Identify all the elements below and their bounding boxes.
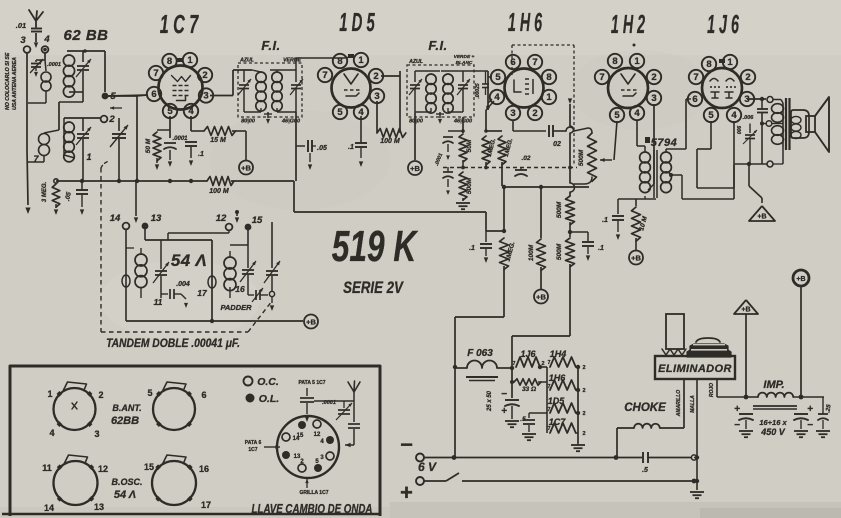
svg-text:4: 4 — [43, 34, 50, 45]
svg-text:F.I.: F.I. — [261, 38, 280, 53]
wire to +B triangle — [748, 164, 750, 186]
resistor 15M — [191, 130, 204, 132]
svg-text:.1: .1 — [348, 144, 354, 151]
svg-text:.01: .01 — [16, 21, 26, 30]
oscillator trimmer 2 — [247, 245, 249, 268]
label 1C7 — [160, 9, 199, 39]
svg-text:12: 12 — [98, 464, 108, 474]
grid bias chain x504 — [503, 187, 505, 231]
wire 1C7 pin5 down — [169, 116, 171, 138]
svg-text:500M: 500M — [466, 177, 473, 194]
svg-text:5: 5 — [495, 72, 501, 83]
svg-text:−: − — [501, 389, 507, 400]
wire 1J6 pin3 to output — [747, 98, 766, 100]
tube 1C7 — [159, 66, 203, 110]
svg-text:.1: .1 — [602, 217, 608, 224]
output transformer primary — [781, 100, 783, 104]
volume potentiometer 500M — [574, 128, 588, 131]
output terminal top — [767, 97, 773, 103]
capacitor .1 plate feed — [570, 231, 588, 233]
wire chain top from switch — [454, 457, 456, 459]
wire A minus down — [454, 367, 456, 458]
interstage transformer 5794 — [645, 137, 650, 143]
62BB secondary coil — [64, 117, 100, 119]
label 1J6 — [707, 11, 739, 40]
first IF transformer dashed box — [238, 63, 302, 117]
svg-text:17: 17 — [197, 288, 208, 298]
wire transformer bottom — [644, 196, 646, 199]
wire malla to ground — [696, 379, 698, 490]
first IF primary trimmer — [243, 70, 245, 82]
wire 1C7 pin3 to IF — [210, 95, 233, 97]
arrow pata6 — [264, 446, 280, 448]
svg-text:3: 3 — [374, 91, 379, 102]
tube 1H2 — [608, 68, 648, 108]
first IF secondary coil — [272, 72, 282, 82]
+B circle screen — [534, 290, 548, 304]
svg-text:2: 2 — [98, 390, 103, 400]
hop over x570 — [566, 127, 574, 131]
svg-text:+B: +B — [631, 253, 641, 262]
box ELIMINADOR — [655, 356, 735, 379]
svg-text:450 V: 450 V — [760, 427, 786, 437]
oscillator coil 2 — [224, 257, 236, 269]
label 1H2 — [611, 11, 645, 40]
first IF center ground — [267, 112, 269, 118]
speaker driver — [806, 116, 815, 132]
svg-text:2: 2 — [532, 108, 537, 119]
+B warning triangle B plus — [734, 300, 758, 314]
resistor 10M — [635, 199, 637, 206]
second IF secondary trimmer — [462, 71, 464, 82]
svg-text:+B: +B — [741, 307, 750, 314]
svg-text:NO COLOCARLO SI SE: NO COLOCARLO SI SE — [5, 52, 11, 110]
svg-text:006: 006 — [737, 126, 743, 135]
svg-text:−: − — [807, 420, 813, 431]
svg-text:4: 4 — [494, 92, 500, 103]
oscillator bottom bus — [125, 302, 127, 321]
svg-text:1: 1 — [634, 56, 640, 67]
arrow wave-change — [110, 107, 122, 109]
output transformer tap terminal — [766, 121, 772, 127]
resistor 100M series in bus — [207, 177, 234, 186]
svg-text:6: 6 — [201, 390, 206, 400]
svg-text:6 V: 6 V — [418, 460, 437, 474]
speaker voice coil yoke — [791, 110, 809, 138]
rotary switch big circle — [277, 416, 339, 478]
svg-text:B.OSC.: B.OSC. — [111, 477, 142, 487]
svg-text:+B: +B — [796, 276, 805, 283]
svg-text:AZUL: AZUL — [408, 59, 423, 65]
tandem dashed box — [100, 168, 102, 332]
svg-text:F.I.: F.I. — [428, 38, 447, 53]
oscillator trimmer 1 — [160, 240, 162, 269]
label TANDEM DOBLE — [106, 337, 240, 350]
svg-text:50 M: 50 M — [145, 138, 152, 153]
resistor 1MEG bias — [500, 238, 509, 270]
wire terminal 4 down — [44, 53, 46, 60]
padder capacitor — [248, 294, 254, 296]
svg-text:B.ANT.: B.ANT. — [112, 403, 141, 413]
tube 1D5 — [332, 69, 371, 108]
svg-text:1 C 7: 1 C 7 — [160, 9, 199, 39]
svg-text:1 D 5: 1 D 5 — [339, 9, 375, 37]
wire 1D5 pin3 down to 100M — [376, 101, 378, 133]
svg-text:.0001: .0001 — [47, 62, 61, 68]
svg-text:14: 14 — [44, 503, 54, 513]
svg-text:3: 3 — [20, 35, 26, 46]
62BB antenna coil primary — [67, 50, 105, 52]
wire left rail down to ground — [27, 150, 28, 205]
svg-text:.004: .004 — [176, 281, 190, 288]
filament right rail ground — [577, 367, 579, 443]
resistor 100M screen — [540, 187, 542, 238]
tube 1H6 — [505, 69, 544, 108]
capacitor .1 at 5794 — [617, 199, 619, 214]
second IF primary coil — [426, 74, 436, 84]
wire 62BB secondary bottom — [63, 118, 65, 155]
svg-text:5: 5 — [337, 107, 343, 118]
svg-text:8: 8 — [706, 59, 711, 70]
battery terminal minus — [416, 454, 424, 462]
oscillator coil 1 — [125, 248, 127, 302]
svg-text:12: 12 — [314, 432, 321, 438]
variable capacitor 62BB secondary — [82, 118, 84, 131]
svg-text:CHOKE: CHOKE — [624, 402, 666, 414]
resistor 50M — [157, 129, 170, 131]
svg-text:15: 15 — [144, 462, 154, 472]
+B circle first — [239, 161, 253, 175]
series capacitor .5 rail — [642, 452, 644, 463]
svg-text:62 BB: 62 BB — [63, 27, 108, 44]
capacitor .0001 switch — [306, 388, 308, 396]
svg-text:02: 02 — [553, 141, 561, 148]
svg-text:500M: 500M — [578, 149, 585, 166]
switch wafer B.ANT 2 — [153, 388, 195, 430]
svg-text:5794: 5794 — [651, 137, 677, 149]
svg-text:8: 8 — [167, 56, 172, 67]
twin 1MEG grid resistors — [486, 130, 502, 132]
svg-text:1 J 6: 1 J 6 — [707, 11, 739, 40]
dot above 1H2 — [633, 44, 636, 47]
svg-text:2: 2 — [651, 72, 656, 83]
svg-text:LLAVE CAMBIO DE ONDA: LLAVE CAMBIO DE ONDA — [252, 503, 373, 516]
resistor 33 ohm — [512, 381, 514, 383]
svg-text:IMP.: IMP. — [763, 379, 784, 391]
main bus y181 — [56, 180, 207, 182]
svg-text:+: + — [400, 480, 413, 505]
svg-text:3: 3 — [651, 93, 656, 104]
svg-text:2: 2 — [745, 72, 750, 83]
svg-text:.05: .05 — [317, 145, 327, 152]
svg-text:15 M: 15 M — [210, 137, 226, 144]
svg-text:100 M: 100 M — [209, 188, 229, 195]
second IF transformer dashed box — [407, 65, 474, 117]
svg-text:519 K: 519 K — [332, 222, 418, 271]
svg-text:500M: 500M — [556, 243, 563, 260]
wire IF secondary bottom to bus — [295, 112, 297, 181]
svg-text:BLANC: BLANC — [456, 60, 473, 66]
svg-text:ELIMINADOR: ELIMINADOR — [658, 363, 732, 375]
svg-text:16: 16 — [235, 284, 245, 294]
svg-text:1: 1 — [727, 57, 733, 68]
svg-text:6: 6 — [510, 57, 515, 68]
main tuning capacitor — [118, 118, 120, 131]
svg-text:15: 15 — [252, 215, 263, 226]
pot wiper arrow from 1H2 grid — [614, 121, 617, 160]
svg-text:GRILLA 1C7: GRILLA 1C7 — [300, 490, 329, 496]
svg-text:7: 7 — [322, 70, 327, 81]
antenna symbol — [29, 10, 43, 27]
svg-text:O.L.: O.L. — [259, 393, 279, 405]
svg-text:SERIE 2V: SERIE 2V — [343, 279, 404, 298]
svg-text:4: 4 — [634, 108, 640, 119]
svg-text:+B: +B — [410, 164, 420, 173]
AVC feed line y212 — [293, 181, 295, 212]
svg-text:14: 14 — [110, 213, 121, 224]
svg-text:4: 4 — [49, 428, 54, 438]
filter choke IMP — [746, 396, 758, 398]
5794 primary coil — [640, 152, 651, 163]
capacitor .1 under 1D5 — [360, 116, 362, 143]
capacitor .1 at 1C7 pin4 — [190, 116, 192, 131]
resistor 100M anode — [377, 129, 406, 138]
coupling coil to 62BB — [45, 60, 46, 71]
svg-text:8: 8 — [612, 56, 617, 67]
svg-text:.1: .1 — [598, 245, 604, 252]
svg-text:7: 7 — [153, 68, 158, 79]
svg-text:12: 12 — [216, 213, 227, 224]
first IF primary coil — [256, 72, 266, 82]
svg-text:11: 11 — [42, 463, 52, 473]
ground .05 — [309, 152, 311, 160]
hop over bus at x570 — [570, 183, 575, 192]
coil 7 oscillator antenna — [58, 102, 60, 130]
label 1D5 — [339, 9, 375, 37]
label 1H6 — [508, 9, 542, 38]
svg-text:.1: .1 — [198, 151, 204, 158]
svg-text:AZUL: AZUL — [239, 58, 254, 64]
output transformer core — [785, 98, 787, 150]
svg-text:16: 16 — [199, 464, 209, 474]
capacitor .05 under first IF — [296, 145, 305, 147]
switch wafer B.ANT 1 — [54, 388, 96, 430]
bottom-left panel box — [10, 366, 380, 516]
+B warning triangle output — [749, 206, 775, 221]
AVC dashed line — [443, 167, 577, 169]
svg-text:4: 4 — [188, 106, 194, 117]
+B circle output heavy — [793, 270, 809, 286]
svg-text:1: 1 — [187, 55, 193, 66]
svg-text:ROJO: ROJO — [709, 383, 715, 397]
svg-text:3: 3 — [203, 91, 208, 102]
wire terminal 5 to 1C7 pin 6 — [108, 95, 148, 96]
svg-text:.5: .5 — [642, 467, 648, 474]
legend O.L. — [246, 394, 255, 403]
svg-text:3: 3 — [510, 108, 515, 119]
variable capacitor 62BB primary — [82, 51, 84, 62]
svg-text:5: 5 — [147, 388, 152, 398]
svg-text:USA ANTENA AEREA: USA ANTENA AEREA — [12, 57, 18, 110]
svg-text:4: 4 — [731, 110, 737, 121]
svg-text:1: 1 — [546, 92, 552, 103]
svg-text:F 063: F 063 — [467, 348, 493, 359]
svg-text:2: 2 — [202, 70, 207, 81]
IMP core — [753, 405, 797, 407]
svg-text:+B: +B — [536, 292, 546, 301]
svg-text:−: − — [400, 432, 413, 457]
oscillator section top wire — [145, 239, 212, 241]
second IF secondary coil — [443, 74, 453, 84]
svg-text:.02: .02 — [521, 155, 530, 162]
resistor 500M plate feed lower — [569, 222, 571, 237]
second IF center ground — [439, 112, 441, 118]
svg-text:500M: 500M — [556, 201, 563, 218]
dashed box around 1H6 — [512, 44, 574, 46]
+B circle oscillator — [304, 315, 318, 329]
+B circle at 10M — [629, 251, 643, 265]
tube 1J6 — [702, 68, 742, 108]
5794 core — [653, 150, 655, 198]
arrow to tandem 15 — [236, 212, 238, 216]
svg-text:PATA 5 1C7: PATA 5 1C7 — [298, 380, 325, 386]
svg-text:TANDEM DOBLE .00041 μF.: TANDEM DOBLE .00041 μF. — [106, 337, 240, 350]
svg-text:8: 8 — [337, 56, 342, 67]
svg-text:25 x 50: 25 x 50 — [487, 390, 493, 412]
svg-text:13: 13 — [94, 502, 104, 512]
eliminator connector — [666, 314, 684, 349]
svg-text:5: 5 — [614, 110, 620, 121]
wire second IF to 1H6 diode pins — [463, 70, 488, 72]
svg-text:1C7: 1C7 — [248, 447, 257, 453]
svg-text:33 Ω: 33 Ω — [522, 386, 536, 393]
resistor 50M diode — [462, 117, 464, 133]
capacitor 02 coupling — [512, 120, 514, 131]
svg-text:2: 2 — [582, 411, 585, 417]
svg-text:16+16 x: 16+16 x — [759, 418, 787, 427]
svg-text:PATA 6: PATA 6 — [245, 440, 262, 446]
wire x570 AVC vertical — [568, 98, 572, 104]
svg-text:PADDER: PADDER — [220, 303, 252, 312]
label 519 K — [332, 222, 418, 271]
small antenna symbol — [348, 381, 360, 392]
first IF secondary trimmer — [295, 70, 297, 82]
capacitor .1 AVC — [485, 231, 487, 242]
wire rojo — [716, 379, 718, 397]
svg-text:+B: +B — [306, 317, 316, 326]
svg-text:6: 6 — [692, 94, 697, 105]
wire 1C7 pin6 to left — [137, 95, 148, 96]
svg-text:2: 2 — [373, 71, 378, 82]
svg-text:1: 1 — [358, 55, 364, 66]
svg-text:+B: +B — [757, 214, 766, 221]
svg-text:5: 5 — [167, 106, 173, 117]
wire 1D5 pin2 to IF2 — [381, 75, 400, 77]
1J6 top cap — [719, 59, 725, 63]
positive rail with switch — [424, 480, 446, 482]
output terminal bottom — [747, 162, 751, 166]
svg-text:1: 1 — [86, 152, 91, 162]
svg-text:100M: 100M — [528, 244, 535, 261]
svg-text:7: 7 — [532, 57, 537, 68]
battery terminal plus — [416, 477, 424, 485]
svg-text:3: 3 — [94, 429, 99, 439]
wire 15M to +B — [232, 130, 246, 132]
arrow to tandem 13 — [135, 181, 137, 216]
1D5 top cap — [348, 54, 354, 58]
+B circle second — [414, 113, 416, 160]
svg-text:2: 2 — [108, 114, 115, 125]
svg-text:+: + — [501, 406, 507, 417]
svg-text:80|00: 80|00 — [409, 119, 423, 125]
svg-text:46|G00: 46|G00 — [281, 119, 300, 125]
svg-text:1 H 6: 1 H 6 — [508, 9, 542, 38]
svg-text:7: 7 — [693, 72, 698, 83]
wire bias to battery rail — [455, 316, 504, 318]
wire 1H2 pin3 down — [653, 104, 655, 184]
negative rail — [424, 457, 642, 459]
screen bus y187 — [504, 186, 589, 188]
svg-text:3 MEG.: 3 MEG. — [42, 182, 48, 203]
svg-text:.00025: .00025 — [475, 83, 481, 99]
svg-text:62BB: 62BB — [111, 415, 139, 427]
svg-text:2: 2 — [541, 361, 544, 367]
choke coil — [617, 427, 634, 429]
svg-text:5: 5 — [708, 110, 714, 121]
svg-text:7: 7 — [512, 361, 515, 367]
resistor 500M plate feed upper — [566, 196, 575, 225]
svg-text:80|00: 80|00 — [241, 119, 255, 125]
svg-text:17: 17 — [201, 500, 211, 510]
1C7 top cap — [177, 58, 183, 62]
trimmer capacitor switch — [343, 401, 345, 408]
capacitor .006 tone — [757, 108, 768, 110]
svg-text:8: 8 — [546, 72, 551, 83]
capacitor antenna line — [353, 401, 355, 422]
switch wafer B.OSC 2 — [152, 461, 196, 505]
svg-text:100 M: 100 M — [380, 138, 400, 145]
wire IF secondary top to 1D5 grid cap — [295, 58, 297, 70]
vibrator can — [687, 344, 731, 357]
rotary contacts — [298, 421, 306, 429]
svg-text:54 Λ: 54 Λ — [171, 251, 207, 270]
svg-text:11: 11 — [154, 297, 163, 307]
5794 secondary tap — [669, 173, 673, 177]
capacitor .006 lower — [749, 124, 751, 134]
wire terminal 3 down — [26, 53, 28, 150]
svg-text:6: 6 — [151, 89, 156, 100]
svg-text:MALLA: MALLA — [690, 395, 696, 413]
svg-text:+B: +B — [241, 163, 251, 172]
label LLAVE CAMBIO DE ONDA — [252, 503, 373, 516]
5794 secondary coil — [661, 152, 672, 163]
svg-text:VERDE +: VERDE + — [454, 54, 475, 60]
svg-text:50M: 50M — [466, 139, 473, 152]
wire 1H6 pin4 to 1MEG — [486, 101, 494, 110]
svg-text:.1: .1 — [469, 245, 475, 252]
oscillator right branch — [211, 240, 213, 321]
speaker horn — [815, 97, 829, 152]
svg-text:1: 1 — [47, 389, 52, 399]
svg-text:7: 7 — [599, 72, 604, 83]
svg-text:2: 2 — [582, 365, 585, 371]
label SERIE 2V — [343, 279, 404, 298]
svg-text:54 Λ: 54 Λ — [114, 489, 136, 501]
legend O.C. — [244, 377, 253, 386]
third variable capacitor — [271, 222, 273, 268]
switch wafer B.OSC 1 — [54, 461, 98, 505]
svg-text:.006: .006 — [743, 115, 755, 121]
